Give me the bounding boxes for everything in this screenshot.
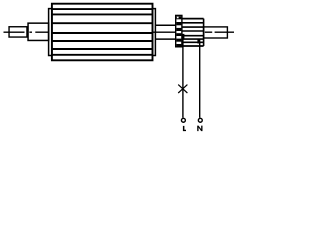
commutator ring line 3: [182, 30, 204, 32]
fan dark cell 2: [176, 22, 181, 25]
centerline left segment: [4, 31, 49, 33]
brush 2: [197, 39, 200, 43]
commutator ring line 2: [182, 26, 204, 28]
rotor lamination line 5: [52, 40, 153, 42]
fan dark cell 5: [176, 39, 181, 42]
rotor body outline: [52, 4, 153, 61]
commutator ring line 4: [182, 35, 204, 37]
commutator bottom edge: [181, 45, 203, 47]
shaft section rotor-to-fan bottom edge: [155, 38, 175, 40]
rotor lamination line 2: [52, 13, 153, 15]
fan dark cell 6: [176, 44, 181, 47]
rotor lamination line 3: [52, 22, 153, 24]
shaft end rectangle (left small step): [9, 27, 27, 37]
fan white notch: [177, 17, 179, 19]
wire from brush 1: [182, 36, 184, 118]
commutator right edge: [203, 19, 205, 46]
wire from brush 2: [199, 42, 201, 118]
right shaft end rectangle: [204, 27, 228, 38]
rotor lamination line 1: [52, 8, 153, 10]
commutator ring line 5: [182, 38, 204, 40]
fan dark cell 1: [176, 16, 181, 19]
rotor lamination line 4: [52, 32, 153, 34]
shaft section rotor-to-fan top edge: [155, 24, 175, 26]
rotor right end cap: [153, 9, 156, 56]
rotor lamination line 7: [52, 54, 153, 56]
fan dark cell 4: [176, 33, 181, 36]
commutator top edge: [181, 18, 203, 20]
commutator ring line 6: [182, 41, 204, 43]
centerline right segment: [153, 31, 234, 33]
shaft bearing step (left large step): [28, 23, 49, 40]
brush 1: [182, 34, 185, 39]
fuse X symbol on wire 1: [178, 85, 187, 93]
label N: [197, 126, 202, 132]
terminal circle N: [198, 118, 202, 122]
rotor left end cap: [49, 9, 52, 56]
label L: [183, 126, 186, 131]
rotor lamination line 6: [52, 48, 153, 50]
fan / spacer stack outline: [176, 15, 182, 46]
fan dark cell 3: [176, 28, 181, 31]
terminal circle L: [181, 118, 185, 122]
commutator ring line 1: [182, 22, 204, 24]
